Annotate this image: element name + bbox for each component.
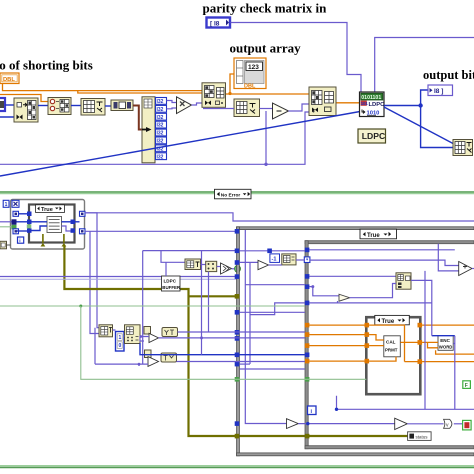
inner for loop border bottom bbox=[305, 446, 474, 449]
inner case structure True (left) bbox=[29, 205, 75, 243]
wire buffer riser bbox=[165, 262, 167, 276]
innermost case structure True bbox=[366, 317, 420, 394]
function replace array subset B bbox=[48, 98, 71, 115]
wire orange bus second line bbox=[78, 91, 202, 93]
big case structure border top bbox=[237, 227, 474, 230]
wire tri to tunnel bbox=[232, 268, 235, 270]
wire inside loop top to add triangle bbox=[309, 260, 458, 265]
while loop top border (green) bbox=[0, 191, 474, 193]
wire diagonal LDPC to reshape bbox=[384, 107, 453, 144]
wire b1 to b2 bbox=[201, 264, 206, 266]
svg-text:True: True bbox=[367, 233, 380, 239]
wire C to D bbox=[105, 105, 111, 107]
svg-text:status: status bbox=[416, 435, 429, 440]
wire or to stop bbox=[454, 423, 463, 425]
BOTTOM-RIGHT-STRUCTURES bbox=[235, 227, 474, 456]
wire violet y250 bbox=[143, 250, 237, 252]
big case structure border bottom bbox=[237, 453, 474, 456]
function index block c1 bbox=[99, 325, 113, 337]
svg-text:I32: I32 bbox=[157, 139, 164, 145]
wire block to loop tunnel bbox=[296, 259, 305, 261]
svg-text:BUFFER: BUFFER bbox=[162, 285, 181, 290]
svg-text:ENC: ENC bbox=[440, 338, 450, 343]
wire orange bus G to H bbox=[225, 93, 309, 95]
wire orange H to LDPC bbox=[336, 102, 360, 104]
wire junction up to I8 indicator bbox=[421, 90, 428, 106]
wire vertical x142 bbox=[142, 251, 144, 277]
wire orange from left edge to B bbox=[0, 95, 48, 102]
wire to or gate bbox=[298, 423, 394, 425]
wire bottom violet rail bbox=[337, 396, 474, 410]
indicator I8 output bbox=[428, 85, 453, 96]
svg-text:WORD: WORD bbox=[439, 345, 453, 350]
wire control to structure bbox=[7, 244, 11, 246]
function initialize array A bbox=[14, 98, 38, 122]
function add triangle right bbox=[459, 262, 472, 276]
wire orange bus from DBL bbox=[3, 84, 203, 91]
svg-text:output bits: output bits bbox=[423, 68, 474, 82]
wire control to initialize array bbox=[5, 104, 14, 106]
wire tri1 out long bbox=[159, 337, 305, 339]
orange tunnels inner loop border bbox=[305, 323, 310, 364]
svg-text:-1: -1 bbox=[272, 257, 277, 263]
junction orange bus bbox=[228, 92, 231, 95]
olive wire down and across bbox=[64, 247, 407, 437]
svg-text:0101101: 0101101 bbox=[361, 95, 381, 101]
wire A to B bbox=[38, 105, 48, 107]
indicator output array (orange DBL 2D) bbox=[234, 58, 266, 90]
wire violet out bottom riser bbox=[85, 230, 237, 232]
green F terminal right bbox=[463, 381, 471, 389]
orange tunnels innermost case right bbox=[418, 323, 423, 364]
wire output array to orange bus bbox=[230, 74, 234, 94]
svg-text:I32: I32 bbox=[157, 99, 164, 105]
label LDPC bbox=[358, 129, 386, 143]
svg-text:I32: I32 bbox=[157, 123, 164, 129]
big case structure border left bbox=[237, 227, 240, 456]
svg-text:True: True bbox=[41, 207, 53, 213]
svg-text:i: i bbox=[19, 238, 20, 244]
wire matrix to right edge into LDPC bbox=[375, 38, 474, 93]
green tunnel inner loop border bbox=[305, 377, 310, 382]
case interior verticals bbox=[245, 230, 286, 424]
wire tri to block bbox=[269, 264, 282, 266]
wire add out bbox=[472, 268, 474, 270]
wire long net to H (from left edge) bbox=[0, 112, 309, 164]
svg-text:101: 101 bbox=[361, 101, 369, 106]
wire multiply to G bbox=[192, 103, 203, 105]
wire element2 to multiply bbox=[167, 107, 177, 110]
function replace array subset H bbox=[309, 87, 336, 116]
function boolean array to number I bbox=[234, 99, 260, 117]
svg-text:I32: I32 bbox=[157, 107, 164, 113]
function boolean-to-string D bbox=[111, 100, 133, 111]
wire into I from left bbox=[203, 108, 234, 110]
case label True (innermost) bbox=[375, 315, 410, 324]
svg-text:LDPC: LDPC bbox=[369, 102, 386, 108]
node icon box top bbox=[12, 200, 19, 207]
constant array 1 0 bbox=[116, 332, 125, 352]
olive tunnel big case border bbox=[235, 434, 240, 439]
indicator status bbox=[408, 432, 432, 441]
orange wires case to ENC bbox=[422, 324, 474, 326]
constant 1 box bbox=[3, 200, 9, 208]
blue tunnels inner loop border bbox=[305, 248, 310, 358]
wire negate to H bbox=[289, 104, 310, 111]
green junction bbox=[79, 305, 82, 308]
wire junction riser bbox=[265, 111, 267, 164]
function negate bbox=[273, 103, 289, 119]
tunnels on case border (right) bbox=[71, 220, 76, 233]
tunnels on loop border (right) bbox=[80, 211, 86, 234]
function greater triangle 2 bbox=[395, 418, 408, 429]
svg-text:no of shorting bits: no of shorting bits bbox=[0, 58, 93, 73]
wires cluster bbox=[113, 329, 116, 331]
function search array c2 bbox=[125, 325, 141, 344]
function greater triangle bottom bbox=[287, 419, 299, 429]
subVI CAL PRMT bbox=[384, 336, 401, 357]
function block row b2 bbox=[206, 261, 217, 271]
svg-text:I8 ]: I8 ] bbox=[434, 88, 443, 95]
wires into left structure bbox=[0, 221, 12, 223]
svg-text:[ I8: [ I8 bbox=[210, 21, 220, 28]
case selector label: No Error bbox=[215, 189, 252, 199]
node y-box bbox=[162, 328, 178, 337]
svg-text:True: True bbox=[382, 319, 395, 325]
junction output bbox=[418, 103, 422, 107]
function transpose C bbox=[81, 99, 105, 116]
vertical rails right bbox=[424, 271, 426, 409]
mini node c3 bbox=[144, 327, 151, 335]
svg-text:F: F bbox=[465, 383, 468, 389]
control at left edge (clipped) bbox=[0, 98, 5, 111]
BOTTOM-CLUSTER bbox=[0, 251, 366, 380]
svg-text:PRMT: PRMT bbox=[385, 348, 398, 353]
tunnels on left loop border bbox=[12, 211, 19, 234]
wire brown D to index array bbox=[133, 106, 142, 130]
wire riser x97 bbox=[85, 213, 99, 328]
subVI compute parity check matrix bbox=[47, 217, 62, 233]
function icon block top bbox=[282, 254, 296, 265]
wire ENC out bbox=[432, 335, 455, 337]
svg-text:CAL: CAL bbox=[386, 340, 396, 345]
svg-text:I32: I32 bbox=[157, 131, 164, 137]
orange tunnels innermost case left bbox=[365, 323, 370, 364]
array elements I32 column bbox=[156, 98, 167, 161]
iteration terminal i bbox=[18, 237, 24, 244]
svg-text:LDPC: LDPC bbox=[362, 131, 385, 141]
olive branch into big case bbox=[189, 295, 237, 297]
wire b2 down riser bbox=[208, 272, 210, 332]
control I8 parity check matrix bbox=[207, 18, 231, 28]
svg-text:DBL: DBL bbox=[244, 84, 256, 90]
BOTTOM-PANEL bbox=[0, 189, 474, 467]
svg-text:No Error: No Error bbox=[221, 192, 241, 198]
wire to block row bbox=[161, 251, 185, 263]
stop terminal bbox=[463, 420, 472, 430]
wire junction down to reshape bbox=[421, 106, 453, 148]
subVI LDPC encoder bbox=[360, 92, 386, 117]
svg-text:0: 0 bbox=[119, 343, 122, 349]
left for-loop structure bbox=[11, 200, 85, 250]
wire case interior h262 bbox=[239, 261, 258, 263]
wire blue h354 bbox=[140, 343, 305, 355]
function equal triangle 2 bbox=[148, 357, 159, 367]
function multiply bbox=[177, 97, 192, 114]
function comparison triangle bbox=[221, 263, 232, 274]
blue tunnels big case left border bbox=[235, 229, 240, 426]
node m-box bbox=[161, 353, 177, 362]
while loop bottom border (green) bbox=[0, 465, 474, 467]
wire I to negate bbox=[260, 108, 273, 110]
control DBL no of shorting bits bbox=[0, 73, 19, 84]
function or gate bbox=[444, 419, 452, 428]
svg-text:LDPC: LDPC bbox=[164, 279, 177, 284]
svg-text:I32: I32 bbox=[157, 154, 164, 160]
junction dot bbox=[335, 408, 338, 411]
svg-text:parity check matrix in: parity check matrix in bbox=[203, 1, 328, 16]
svg-text:1: 1 bbox=[5, 202, 8, 208]
orange wires loop to case bbox=[309, 325, 364, 361]
orange wire CAL out bbox=[400, 342, 417, 361]
function reshape array bbox=[453, 140, 473, 156]
wire riser x201 bbox=[201, 251, 203, 355]
wire lower input from left edge bbox=[0, 116, 17, 118]
olive tunnel big case border y296 bbox=[235, 294, 240, 299]
subVI ENC WORD bbox=[438, 336, 453, 351]
wire violet h364 bbox=[95, 328, 148, 366]
svg-text:1: 1 bbox=[119, 335, 122, 341]
wire b2 to tri bbox=[217, 266, 221, 268]
wire tri2 to or bbox=[407, 423, 443, 425]
wire ym out bbox=[178, 331, 305, 333]
svg-text:123: 123 bbox=[248, 64, 259, 71]
olive anchors under case bbox=[41, 243, 67, 247]
function block row b1 bbox=[185, 259, 201, 270]
inner for loop border top bbox=[305, 241, 474, 244]
junction dot loop border bbox=[306, 422, 309, 425]
function index array E (expanded) bbox=[142, 97, 155, 163]
wire LDPC output bbox=[384, 105, 421, 107]
wire B to C bbox=[71, 105, 81, 107]
case label True bbox=[36, 205, 65, 213]
iteration terminal i (inner loop) bbox=[308, 406, 317, 415]
svg-text:output array: output array bbox=[230, 41, 302, 56]
olive tunnel inner loop border bbox=[305, 434, 310, 439]
green tunnel ellipse on case border bbox=[235, 265, 241, 272]
mini node c4 bbox=[145, 350, 152, 358]
function build matrix G bbox=[202, 83, 226, 108]
TOP-PANEL bbox=[0, 1, 474, 177]
function equal triangle 1 bbox=[149, 333, 159, 342]
orange wires inside case bbox=[369, 325, 404, 362]
wire long blue diagonal to LDPC bbox=[0, 112, 360, 177]
wire mg out bbox=[177, 361, 305, 363]
svg-text:I32: I32 bbox=[157, 115, 164, 121]
case label True (big case) bbox=[360, 229, 397, 239]
constant -1 bbox=[270, 254, 280, 263]
wire I8 control to LDPC bbox=[231, 23, 362, 93]
svg-text:DBL: DBL bbox=[3, 77, 15, 83]
green wire horizontal bbox=[0, 305, 305, 307]
wire element1 to multiply bbox=[167, 101, 177, 103]
control box at left edge bbox=[0, 241, 7, 249]
inner for loop border left bbox=[305, 241, 308, 449]
tunnels on case border (left) bbox=[27, 212, 32, 233]
function decrement triangle bbox=[258, 260, 269, 269]
violet bus across panel bbox=[0, 276, 237, 278]
junction on long net bbox=[264, 163, 267, 166]
wire violet out top (to big case) bbox=[85, 213, 474, 221]
green tunnel big case border bbox=[235, 377, 240, 382]
subVI LDPC BUFFER bbox=[162, 276, 181, 291]
green wire L path bbox=[81, 306, 367, 379]
